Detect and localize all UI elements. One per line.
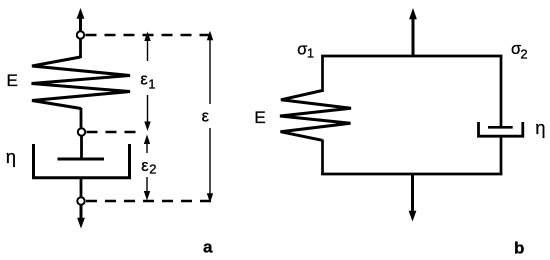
svg-text:ε: ε	[140, 71, 148, 89]
label epsilon2	[141, 157, 156, 177]
wire: right edge upper (b)	[500, 55, 503, 127]
svg-text:ε: ε	[141, 157, 149, 175]
label epsilon1	[140, 71, 155, 92]
label sigma1	[297, 40, 314, 60]
svg-text:η: η	[6, 146, 16, 167]
spring E (b)	[280, 91, 351, 141]
node: bottom pin circle (a)	[77, 197, 84, 204]
label sigma2	[511, 40, 528, 62]
dashed reference line middle (a)	[87, 131, 144, 133]
wire: left edge upper (b)	[321, 55, 324, 92]
node: middle pin circle (a)	[78, 128, 85, 135]
svg-text:E: E	[254, 108, 265, 127]
wire: right edge lower (b)	[500, 137, 503, 176]
svg-text:1: 1	[307, 46, 314, 61]
dashpot piston plate (a)	[58, 158, 105, 161]
wire: left edge lower (b)	[321, 140, 324, 176]
force arrow down (a)	[77, 205, 85, 229]
force arrow down (b)	[409, 174, 417, 222]
wire: top edge (b)	[321, 55, 502, 58]
dashpot cylinder cup (a)	[34, 144, 130, 178]
wire: spring to middle node (a)	[80, 108, 83, 129]
dashed reference line top (a)	[86, 34, 214, 36]
svg-text:η: η	[535, 117, 545, 138]
force arrow up (b)	[409, 8, 417, 56]
svg-text:2: 2	[149, 162, 156, 177]
wire: middle node to piston rod (a)	[80, 136, 83, 159]
wire: cup to bottom node (a)	[80, 178, 83, 198]
dashpot piston plate (b)	[488, 126, 513, 129]
dashed reference line bottom (a)	[86, 200, 213, 202]
spring E (a)	[32, 57, 131, 109]
svg-text:a: a	[203, 238, 213, 257]
dashpot cylinder cup (b)	[479, 122, 523, 136]
svg-text:σ: σ	[297, 40, 307, 58]
svg-text:1: 1	[148, 76, 155, 91]
force arrow up (a)	[77, 8, 85, 31]
svg-text:E: E	[7, 71, 18, 90]
wire: top node to spring (a)	[79, 39, 82, 59]
svg-text:ε: ε	[202, 107, 210, 125]
dimension epsilon1 arrows	[144, 32, 150, 132]
node: top pin circle (a)	[77, 31, 84, 38]
dimension epsilon2 arrows	[144, 135, 150, 201]
svg-text:b: b	[514, 238, 524, 257]
dimension epsilon total arrows	[207, 31, 213, 203]
wire: bottom edge (b)	[321, 173, 502, 176]
svg-text:2: 2	[520, 47, 527, 62]
